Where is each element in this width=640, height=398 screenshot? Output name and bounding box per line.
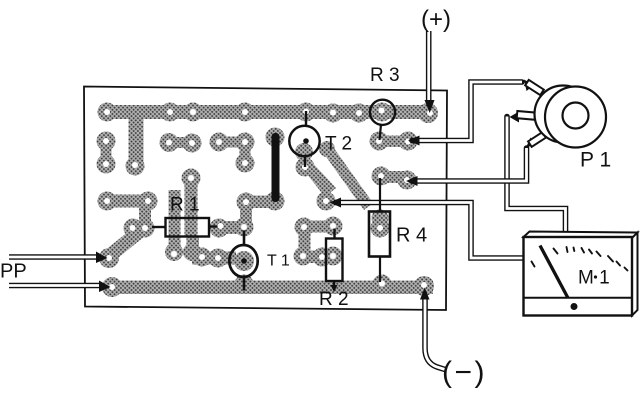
- svg-text:R 2: R 2: [319, 289, 349, 310]
- svg-text:(−): (−): [442, 356, 487, 389]
- resistor R4 body and leads: [369, 178, 390, 282]
- trace: wire-link pads: [237, 128, 285, 229]
- trace: net above R2 with vertical link: [294, 217, 343, 267]
- meter M1 top face: [524, 232, 638, 239]
- transistor T1: [229, 231, 257, 291]
- svg-text:R 1: R 1: [170, 195, 200, 216]
- svg-text:R 4: R 4: [396, 225, 427, 247]
- svg-text:R 3: R 3: [370, 65, 400, 86]
- trace: diagonal from PP input pad to R1 left pad: [99, 222, 150, 268]
- trace: vertical net into R1: [182, 169, 201, 237]
- trace: stubs below R1 and pads left of T1: [165, 190, 254, 271]
- svg-text:T 1: T 1: [267, 253, 290, 270]
- wire from board pad to M1 left side: [330, 198, 524, 259]
- potentiometer P1 top lug: [525, 80, 544, 95]
- wire link (black jumper): [272, 133, 280, 202]
- svg-text:PP: PP: [0, 261, 27, 283]
- trace: pad under T2 and diagonal 1 to M1 wire pad: [295, 143, 336, 211]
- potentiometer P1 bottom lug: [528, 132, 546, 147]
- PCB board outline: [84, 87, 447, 311]
- trace: left vertical dumbbell: [97, 132, 116, 174]
- trace: L-shaped net: [210, 133, 255, 173]
- transistor T2: [289, 111, 319, 167]
- trace: R1 row net: [98, 192, 158, 238]
- trace: bottom ground rail: [102, 275, 434, 298]
- resistor R2 bottom lead tip: [331, 285, 338, 292]
- meter M1 label dot: [594, 275, 597, 278]
- potentiometer P1 shaft hole: [563, 103, 589, 129]
- potentiometer P1 body front circle: [545, 87, 606, 148]
- wire from board pad to P1 bottom lug: [406, 138, 536, 187]
- trace: pads for R3 lead and P1 wires: [370, 132, 418, 190]
- svg-text:T 2: T 2: [325, 134, 352, 155]
- trace: diagonal 2 down to R4 pad: [319, 141, 390, 238]
- meter M1 needle: [540, 246, 568, 299]
- meter M1 front face: [524, 237, 633, 316]
- potentiometer P1 body back circle: [535, 86, 592, 143]
- potentiometer P1 middle lug: [517, 111, 539, 120]
- wire from (-) pad down out of board: [420, 288, 445, 370]
- pad holes: [103, 108, 433, 291]
- trace: net R1 right to T1 top: [210, 218, 254, 238]
- svg-text:M 1: M 1: [578, 268, 610, 289]
- wire PP lower with arrow: [9, 281, 111, 293]
- wire from P1 middle lug down and right into M1 top: [507, 112, 566, 233]
- wire from board pad to P1 top lug: [408, 80, 534, 146]
- meter M1 right face: [632, 233, 638, 316]
- svg-text:P 1: P 1: [580, 149, 611, 172]
- resistor R2 body and leads: [326, 229, 343, 290]
- wire from (+) terminal down to board pad: [425, 31, 435, 113]
- meter M1 screw dot: [571, 303, 578, 310]
- meter M1 scale ticks: [532, 247, 628, 271]
- resistor R3 body (vertical mount, seen from top): [370, 100, 395, 140]
- trace: top supply rail: [98, 103, 439, 176]
- wire PP upper with arrow: [9, 252, 108, 264]
- resistor R1 body and leads: [152, 218, 218, 237]
- svg-text:(+): (+): [421, 6, 451, 33]
- trace: middle horizontal dumbbell: [160, 133, 202, 153]
- meter M1 lower panel line: [524, 297, 633, 299]
